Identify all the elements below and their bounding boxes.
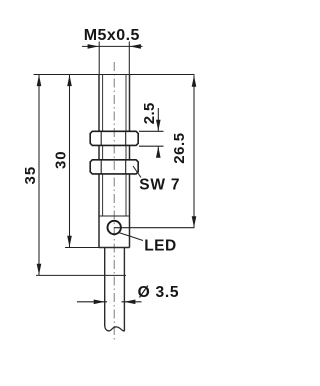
thread root lines — [103, 75, 126, 217]
svg-text:SW 7: SW 7 — [139, 176, 180, 193]
35 extension line + neck end — [36, 274, 126, 276]
hex nut lower — [90, 160, 138, 174]
dimension 35 — [38, 75, 40, 276]
leader SW 7 — [133, 166, 141, 178]
cable — [105, 275, 125, 331]
dimension cable dia — [77, 301, 107, 303]
top extension line (barrel top edge + extensions) — [34, 74, 195, 76]
svg-text:LED: LED — [144, 238, 177, 255]
dimension 2.5 line + arrows — [157, 108, 159, 131]
dimension 26.5 — [193, 75, 195, 227]
step at end of housing (30 extension) — [65, 247, 130, 249]
dimension 2.5 extension lines — [139, 130, 164, 132]
svg-text:30: 30 — [53, 151, 70, 170]
cable break — [105, 326, 125, 331]
svg-text:26.5: 26.5 — [171, 132, 188, 163]
centerline — [113, 62, 115, 343]
svg-text:35: 35 — [22, 166, 39, 185]
neck — [105, 248, 125, 276]
dimension 30 — [69, 75, 71, 248]
svg-text:M5x0.5: M5x0.5 — [84, 27, 140, 44]
LED extension line to 26.5 — [114, 227, 194, 229]
LED circle — [108, 221, 121, 234]
svg-text:Ø 3.5: Ø 3.5 — [138, 284, 180, 301]
hex nut upper — [90, 131, 138, 145]
dimension M5 line — [82, 42, 143, 75]
barrel outer edges — [99, 75, 130, 248]
leader LED — [119, 233, 143, 241]
thread end line — [99, 215, 130, 217]
dimension M5 arrows — [88, 44, 99, 49]
svg-text:2.5: 2.5 — [141, 102, 158, 124]
